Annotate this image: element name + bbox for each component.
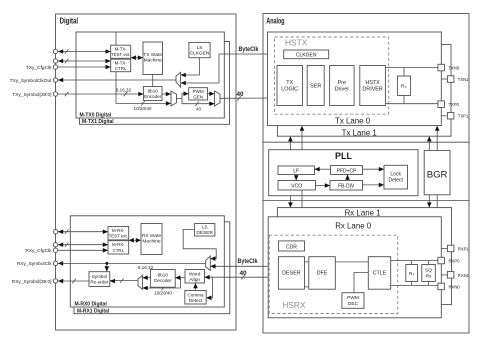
Tx Lane 0 box <box>268 32 442 126</box>
arrow PFD+CP to LF <box>315 167 331 172</box>
40-bit bus from DESER to Word Align <box>205 270 279 280</box>
squelch receiver SQ Rx <box>422 261 436 286</box>
svg-text:CLKGEN: CLKGEN <box>190 51 210 57</box>
stub to TXP1 <box>441 115 446 117</box>
bypass wire 10/20/40 to mux1 lower input <box>116 94 171 111</box>
RXP1 pin <box>447 245 469 252</box>
ByteClk wire from analog CLKGEN to mux0 lower input <box>181 46 284 85</box>
RX port circle 1 <box>53 230 57 234</box>
connectors DESER-DFE <box>305 262 309 287</box>
LF box <box>278 166 315 175</box>
svg-text:M-TX0 Digital: M-TX0 Digital <box>80 113 112 119</box>
BGR arrows down to Rx lanes <box>427 195 440 217</box>
svg-text:Rx Lane 1: Rx Lane 1 <box>345 209 381 218</box>
svg-text:CLKGEN: CLKGEN <box>296 53 317 59</box>
svg-text:8,16,32: 8,16,32 <box>116 88 132 93</box>
RX bypass 10/20/40 to rx mux1 lower input <box>143 278 181 296</box>
HSTX dashed box <box>275 37 389 114</box>
TX LOGIC box <box>277 66 303 106</box>
svg-text:PWM: PWM <box>192 89 203 94</box>
svg-text:BGR: BGR <box>427 169 448 180</box>
svg-text:LOGIC: LOGIC <box>281 86 298 92</box>
svg-text:LF: LF <box>293 169 299 175</box>
TX port circle TXy_CfgClk <box>26 65 58 71</box>
wire Word Align to 8b10 Decoder <box>175 275 185 280</box>
TXP0 wire from driver <box>385 103 438 105</box>
svg-text:M-TX-: M-TX- <box>115 47 128 52</box>
svg-text:ByteClk: ByteClk <box>239 46 259 53</box>
svg-text:40: 40 <box>236 91 244 98</box>
svg-text:PWM: PWM <box>347 295 359 301</box>
TX port circle 2 <box>53 59 57 63</box>
RX port circle 2 <box>53 243 57 247</box>
TXN0 pin <box>438 64 460 71</box>
mux1 <box>171 91 177 106</box>
svg-text:LS: LS <box>202 225 208 231</box>
M-TX-TEST ext. box <box>111 45 131 58</box>
svg-text:HSTX: HSTX <box>365 80 380 86</box>
svg-text:40: 40 <box>196 107 202 112</box>
TX State Machine box <box>143 42 163 75</box>
PFD+CP box <box>331 166 363 175</box>
wire LS CLKGEN to mux0 upper input <box>181 58 200 78</box>
mux2 <box>215 91 221 106</box>
PWM GEN box <box>189 88 208 100</box>
M-TX1 Digital box (partial outline behind M-TX0) <box>80 42 230 126</box>
RX port circle RXy_SymbolClk <box>17 261 58 267</box>
svg-text:Decoder: Decoder <box>154 278 172 283</box>
arrow LF to VCO <box>294 175 299 181</box>
separator line below Tx lanes <box>263 141 469 143</box>
wire TXy_CfgClk to M-TX-CTRL <box>58 65 111 70</box>
FB-DIV box <box>330 181 363 191</box>
LS CLKGEN box <box>189 42 210 57</box>
svg-text:Detect: Detect <box>189 298 203 303</box>
svg-text:8,16,32: 8,16,32 <box>138 265 154 270</box>
rx mux1 <box>138 275 143 289</box>
svg-text:RXy_Symbol[39:0]: RXy_Symbol[39:0] <box>12 279 52 285</box>
wire LS DESER to rx mux0 upper input <box>183 229 216 261</box>
HSTX DRIVER box <box>360 66 386 106</box>
svg-text:TEST ext.: TEST ext. <box>109 234 128 239</box>
termination resistor RT rx <box>406 261 418 286</box>
rx mux0 byteclk selector <box>206 256 211 271</box>
Comma Detect box <box>185 291 206 305</box>
svg-text:Tx Lane 1: Tx Lane 1 <box>342 129 377 138</box>
PWM DEC box and wire <box>342 273 368 309</box>
stub to TXN1 <box>441 78 447 80</box>
svg-text:TX State: TX State <box>143 52 162 58</box>
LS DESER box <box>195 224 215 237</box>
svg-text:TXy_CfgClk: TXy_CfgClk <box>26 65 52 71</box>
svg-text:RXN0: RXN0 <box>449 284 461 289</box>
svg-text:8b10: 8b10 <box>158 272 169 277</box>
vertical rail in TX digital <box>115 32 117 94</box>
Pre Driver box <box>330 66 355 106</box>
RX port circle RXy_Symbol <box>12 279 58 285</box>
svg-text:DRIVER: DRIVER <box>362 86 382 92</box>
wire TX State Machine to encoder <box>152 75 154 87</box>
stub to RXN1 <box>441 274 447 276</box>
svg-text:TXP0: TXP0 <box>449 102 460 107</box>
svg-text:DESER: DESER <box>196 230 213 236</box>
TX port circle 1 <box>53 49 57 53</box>
svg-text:M-RX-: M-RX- <box>112 228 125 233</box>
svg-text:RXN1: RXN1 <box>458 273 470 278</box>
svg-text:TXN0: TXN0 <box>449 66 460 71</box>
DESER box <box>278 257 304 290</box>
CTLE box <box>368 257 390 290</box>
TXP0 pin <box>438 101 460 108</box>
Tx Lane 1 box <box>277 45 451 138</box>
svg-text:Driver: Driver <box>335 86 350 92</box>
RXN0 wire from CTLE <box>391 284 438 286</box>
svg-text:8b10: 8b10 <box>148 89 159 94</box>
M-TX0 Digital box <box>76 32 224 119</box>
M-RX0 Digital box <box>70 216 224 308</box>
wire RX port2 to M-RX-CTRL <box>58 242 108 247</box>
svg-text:10/20/40: 10/20/40 <box>134 106 152 111</box>
BGR arrows up to Tx lanes <box>427 126 440 151</box>
BGR box <box>424 150 450 194</box>
arrow FB-DIV to PFD+CP <box>345 175 350 181</box>
svg-text:GEN: GEN <box>193 95 203 100</box>
wire decoder to rx mux1 upper input <box>138 265 154 280</box>
svg-text:Digital: Digital <box>60 17 79 26</box>
TXN0 wire from driver <box>385 67 438 69</box>
svg-text:TXN1: TXN1 <box>458 77 469 82</box>
svg-text:SQ: SQ <box>425 268 432 274</box>
svg-text:Encoder: Encoder <box>144 94 162 99</box>
svg-text:VCO: VCO <box>291 184 302 190</box>
wire TXy_Symbol bus to encoder <box>58 88 144 97</box>
svg-text:CTLE: CTLE <box>373 271 387 277</box>
svg-text:RXP1: RXP1 <box>458 246 470 251</box>
RXP0 pin <box>438 257 460 264</box>
mux0 byteclk selector <box>176 72 181 87</box>
svg-text:RXy_SymbolClk: RXy_SymbolClk <box>17 261 52 267</box>
svg-text:Re-order: Re-order <box>90 280 109 285</box>
connector DFE-CTLE <box>335 261 368 263</box>
TXN1 pin <box>447 76 469 83</box>
svg-text:CTRL: CTRL <box>113 248 125 253</box>
Rx Lane 1 box <box>277 208 451 305</box>
TXP1 pin <box>447 113 469 120</box>
svg-text:HSRX: HSRX <box>282 300 306 310</box>
RXN1 pin <box>447 272 469 279</box>
svg-text:TXy_Symbol[39:0]: TXy_Symbol[39:0] <box>12 92 51 98</box>
M-TX-CTRL box <box>111 59 131 71</box>
svg-text:Comma: Comma <box>187 292 204 297</box>
RX ByteClk wire from DESER to rx mux0 lower input <box>210 258 278 269</box>
M-RX-CTRL box <box>108 241 129 254</box>
svg-text:Align: Align <box>189 277 200 283</box>
RXN0 pin <box>438 283 460 290</box>
svg-text:DESER: DESER <box>282 271 301 277</box>
svg-text:M-TX1 Digital: M-TX1 Digital <box>82 119 114 125</box>
wire RX port1 to M-RX-TEST <box>58 229 108 234</box>
8b10 Encoder box <box>144 87 163 101</box>
wire PWM GEN to mux2 upper input <box>208 91 215 96</box>
svg-text:TEST ext.: TEST ext. <box>111 52 130 57</box>
svg-text:DEC: DEC <box>348 301 359 307</box>
svg-text:Rx: Rx <box>426 274 432 280</box>
arrow FB-DIV to Lock Detect <box>363 183 385 188</box>
wire TX port1 to M-TX-TEST <box>58 49 111 54</box>
svg-text:RXP0: RXP0 <box>449 259 461 264</box>
svg-text:Machine: Machine <box>142 239 160 245</box>
termination resistor RT tx <box>397 68 410 104</box>
svg-text:DFE: DFE <box>317 271 328 277</box>
M-RX1 Digital box (partial outline behind M-RX0) <box>74 222 230 315</box>
M-RX-TEST ext. box <box>108 227 129 240</box>
svg-text:Tx Lane 0: Tx Lane 0 <box>335 117 371 126</box>
RXP0 wire from CTLE <box>391 260 438 262</box>
arrow VCO to FB-DIV <box>316 183 331 188</box>
svg-text:10/20/40: 10/20/40 <box>154 291 172 296</box>
branch 40-bus to Comma Detect <box>206 277 212 300</box>
svg-text:HSTX: HSTX <box>285 38 308 48</box>
RX State Machine box <box>141 224 162 255</box>
Rx Lane 0 box <box>268 217 441 318</box>
PLL clock arrows down to Rx lanes <box>288 190 304 217</box>
svg-text:Rx Lane 0: Rx Lane 0 <box>335 221 372 230</box>
PLL box <box>269 150 418 196</box>
DFE box <box>309 257 336 290</box>
Lock Detect box <box>384 165 408 189</box>
CDR box <box>278 241 304 251</box>
wire encoder to mux1 upper input <box>162 92 171 97</box>
Word Align box <box>185 270 205 284</box>
wire mux1 output split to PWM GEN and bypass <box>177 91 215 111</box>
svg-text:TX: TX <box>286 80 293 86</box>
Analog outer box <box>263 14 469 334</box>
svg-text:Machine: Machine <box>144 58 162 64</box>
8b10 Decoder box <box>150 270 175 288</box>
svg-text:M-TX-: M-TX- <box>115 61 128 66</box>
svg-text:40: 40 <box>239 270 247 277</box>
CLKGEN box <box>284 50 329 59</box>
svg-text:M-RX-: M-RX- <box>112 242 125 247</box>
svg-text:M-RX0 Digital: M-RX0 Digital <box>75 302 108 308</box>
wire rx mux1 to Symbol Re-order <box>110 278 138 283</box>
svg-text:Symbol: Symbol <box>92 274 107 279</box>
HSRX dashed box <box>269 235 398 313</box>
svg-text:Word: Word <box>189 271 201 277</box>
separator line above Rx lanes <box>263 200 469 202</box>
svg-text:PLL: PLL <box>335 151 353 161</box>
wire RXy_SymbolClk from rx mux0 <box>58 261 206 271</box>
svg-text:LS: LS <box>197 45 203 51</box>
Symbol Re-order box <box>89 272 110 287</box>
svg-text:TXP1: TXP1 <box>458 114 469 119</box>
svg-text:CDR: CDR <box>286 245 297 251</box>
TX port circle TXy_SymbolClkOut <box>10 78 58 84</box>
svg-text:ByteClk: ByteClk <box>238 258 258 265</box>
TX port circle TXy_Symbol <box>12 92 57 98</box>
VCO box <box>278 181 316 191</box>
bidir arrow M-TX boxes to TX State Machine <box>131 55 143 60</box>
wire TXy_SymbolClkOut from mux <box>58 78 176 83</box>
svg-text:TXy_SymbolClkOut: TXy_SymbolClkOut <box>10 78 53 84</box>
40-bit bus mux2 to TX LOGIC <box>220 91 277 101</box>
svg-text:RXy_CfgClk: RXy_CfgClk <box>25 248 52 254</box>
arrow Comma Detect to Word Align <box>193 283 198 291</box>
svg-text:M-RX1 Digital: M-RX1 Digital <box>77 309 110 315</box>
Digital outer box <box>56 14 237 330</box>
wire TX port2 to M-TX-CTRL <box>58 59 111 64</box>
svg-text:CTRL: CTRL <box>115 66 127 71</box>
svg-text:RX State: RX State <box>142 233 162 239</box>
svg-text:PFD+CP: PFD+CP <box>337 169 358 175</box>
svg-text:Detect: Detect <box>388 177 403 183</box>
wire Symbol Re-order to RX port <box>58 279 89 284</box>
svg-text:Analog: Analog <box>266 17 284 26</box>
svg-text:Pre: Pre <box>338 80 346 86</box>
PLL clock arrows up to Tx lanes <box>288 126 304 150</box>
svg-text:SER: SER <box>310 83 321 89</box>
svg-text:FB-DIV: FB-DIV <box>338 184 355 190</box>
RX port circle RXy_CfgClk <box>25 248 57 254</box>
SER box <box>307 66 324 106</box>
stub to RXP1 <box>441 248 447 250</box>
bidir arrow M-RX boxes to RX State Machine <box>129 238 141 243</box>
wire RXy_CfgClk to M-RX-CTRL <box>58 248 108 253</box>
arrow PFD+CP to Lock Detect <box>363 167 385 172</box>
